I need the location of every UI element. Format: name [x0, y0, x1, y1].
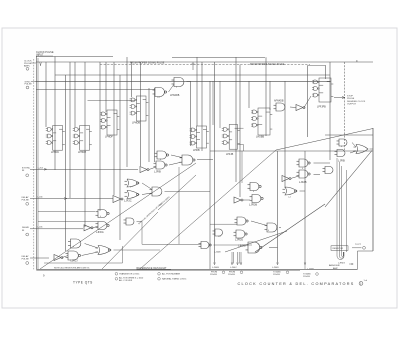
- wire U36 out: [269, 247, 278, 249]
- wire bus x75: [74, 62, 76, 127]
- inverter U29: [54, 255, 63, 261]
- wire border step horizontal: [358, 250, 374, 252]
- svg-text:4: 4: [268, 230, 269, 232]
- gate U27: [66, 251, 81, 260]
- wire top bus B: [55, 74, 330, 76]
- wire U22 out: [165, 191, 211, 193]
- svg-text:FROM PROPER SIGNAL PULSE: FROM PROPER SIGNAL PULSE: [250, 63, 285, 66]
- wire right border: [372, 128, 374, 251]
- wire diagonal G: [158, 175, 196, 210]
- wire wrap bundle bottom right: [337, 158, 347, 260]
- wire feedback bottom: [44, 262, 123, 264]
- gate U10: [297, 170, 311, 178]
- svg-text:LPFJB: LPFJB: [226, 153, 234, 156]
- wire diagonal D: [325, 151, 372, 208]
- gate NOR U28: [96, 246, 112, 255]
- wire left feed y212: [38, 211, 95, 213]
- wire U12 out: [300, 190, 306, 192]
- svg-text:L-204: L-204: [38, 167, 44, 169]
- svg-text:TRANSISTOR LOGIC: TRANSISTOR LOGIC: [119, 273, 140, 276]
- wire diagonal E: [255, 204, 325, 252]
- wire bus x266: [265, 57, 267, 136]
- svg-text:RESISTOR: RESISTOR: [333, 248, 344, 250]
- svg-text:ALL R IN OHMS K = 1000: ALL R IN OHMS K = 1000: [119, 277, 144, 280]
- wire bus x85: [84, 62, 86, 227]
- wire bus x190: [190, 82, 192, 147]
- wire U21-U22: [142, 193, 152, 195]
- gate OR U7: [354, 145, 369, 154]
- wire bus x100: [99, 62, 101, 211]
- wire right upper vertical: [344, 62, 346, 150]
- wire U1 out: [187, 81, 191, 83]
- wire FF-F drop: [243, 145, 245, 152]
- wire delay run 2: [30, 228, 83, 230]
- svg-text:LJFIB: LJFIB: [338, 159, 345, 163]
- gate U6: [335, 150, 346, 157]
- wire U10 out: [314, 174, 321, 176]
- wire bus x249: [248, 81, 250, 108]
- svg-text:4: 4: [100, 216, 101, 218]
- wire bus x270: [269, 81, 271, 110]
- wire bus x325: [325, 66, 327, 80]
- wire bus x70: [69, 62, 71, 198]
- wire bus x285: [284, 82, 286, 189]
- gate U17: [154, 161, 168, 169]
- arrow stub x232: [231, 263, 233, 265]
- resistor RN1 box: [331, 246, 348, 251]
- gate NOR U21: [125, 191, 140, 199]
- inverter U19: [140, 167, 149, 173]
- gate NAND U16: [155, 151, 169, 159]
- wire bus D y89: [36, 89, 155, 91]
- wire U28 out long: [114, 249, 161, 251]
- arrow stub x237.5: [237, 263, 239, 265]
- svg-text:LPFIB: LPFIB: [193, 149, 200, 152]
- svg-text:AMP: AMP: [333, 267, 338, 270]
- svg-text:4: 4: [253, 191, 254, 193]
- wire U11-U10: [291, 176, 300, 179]
- flip-flop LPHDH: [73, 126, 92, 151]
- wire bus x210: [209, 82, 211, 270]
- svg-text:L-204B: L-204B: [214, 252, 221, 254]
- svg-text:LHGBB: LHGBB: [256, 136, 265, 139]
- wire U3-U4: [290, 106, 296, 109]
- wire U18 out: [197, 159, 213, 161]
- svg-text:DELAY: DELAY: [22, 196, 30, 199]
- wire bus x127: [126, 57, 128, 167]
- wire to stop pulse: [334, 97, 345, 99]
- wire diagonal F: [225, 231, 287, 252]
- gate U34: [265, 223, 277, 232]
- wire left feed y222: [38, 221, 98, 223]
- wire feed U33: [210, 223, 237, 225]
- wire stub x232: [231, 252, 233, 264]
- gate U30: [124, 218, 135, 225]
- wire top inner border: [36, 56, 113, 58]
- inverter U4: [296, 105, 305, 111]
- wire bus x214: [214, 62, 216, 264]
- wire diagonal A: [40, 163, 196, 269]
- wire left dashed border: [33, 59, 35, 269]
- wire bus x120: [119, 75, 121, 240]
- gate LPN4DB AND U1: [172, 78, 184, 87]
- svg-text:LPFJPB: LPFJPB: [317, 106, 326, 109]
- gate U22: [150, 187, 162, 196]
- wire U25-U24: [93, 226, 99, 228]
- svg-text:LJFIB: LJFIB: [154, 170, 161, 174]
- wire U30 drop: [141, 222, 143, 245]
- gate U14: [250, 195, 264, 203]
- gate NAND U18: [180, 155, 196, 165]
- wire delay run 3: [30, 257, 49, 259]
- wire bus E y100: [88, 100, 136, 102]
- svg-text:AFN4DB: AFN4DB: [274, 100, 284, 103]
- gate U5: [337, 139, 348, 146]
- wire bus x154: [154, 88, 156, 162]
- svg-text:1204-B: 1204-B: [228, 274, 235, 276]
- wire bus x305: [304, 151, 306, 264]
- wire U7 out: [370, 148, 374, 150]
- svg-text:OUTPUT: OUTPUT: [347, 104, 357, 106]
- wire U30 out: [137, 221, 143, 223]
- wire stub x241: [240, 252, 242, 264]
- wire bus x197: [196, 57, 198, 126]
- svg-text:4: 4: [130, 187, 131, 189]
- arrow B sync: [44, 168, 47, 170]
- svg-text:STOP: STOP: [347, 96, 353, 98]
- wire bus x179: [178, 167, 180, 244]
- flip-flop LPFJB: [222, 125, 240, 150]
- junction dagger 1: [192, 62, 195, 70]
- wire U4 to LPFJPB: [304, 96, 311, 108]
- svg-text:LPHDC: LPHDC: [51, 151, 59, 154]
- svg-text:4: 4: [176, 87, 177, 89]
- svg-text:FROM PROPER SIGNAL PULSE: FROM PROPER SIGNAL PULSE: [130, 62, 165, 65]
- svg-text:LJFDJ: LJFDJ: [71, 260, 79, 263]
- gate U32: [213, 229, 223, 236]
- svg-text:PULSE: PULSE: [347, 98, 355, 100]
- svg-text:TO AND: TO AND: [303, 272, 311, 275]
- svg-text:LJFDD: LJFDD: [235, 238, 243, 242]
- flip-flop LPHDC: [46, 126, 65, 151]
- inverter U15: [234, 197, 243, 203]
- wire U15-U14: [243, 199, 250, 201]
- flip-flop LPHDB: [130, 96, 149, 121]
- inverter U11: [282, 176, 291, 182]
- gate U8: [323, 167, 334, 174]
- wire left border inner: [37, 58, 39, 269]
- gate U9: [297, 159, 311, 167]
- gate U13: [248, 183, 262, 191]
- arrow stop pulse: [342, 97, 345, 99]
- wire U19-U17: [149, 167, 156, 170]
- arrow delay 1: [64, 198, 67, 200]
- wire bus x131: [131, 62, 133, 97]
- wire U17-U18: [169, 162, 182, 165]
- gate U26: [68, 239, 81, 248]
- svg-text:TO AND: TO AND: [273, 271, 281, 274]
- wire vert x220: [219, 82, 221, 129]
- svg-text:AMPL: AMPL: [24, 64, 31, 67]
- wire bottom border second: [36, 269, 300, 271]
- inverter U25: [84, 225, 93, 231]
- svg-text:TYPE QTS: TYPE QTS: [73, 281, 93, 285]
- wire bus x307: [307, 66, 309, 138]
- wire bus x149: [148, 88, 150, 162]
- gate NOR U20: [125, 179, 140, 187]
- wire bus x240: [239, 65, 241, 198]
- wire to PT: [352, 247, 362, 249]
- arrow stub x305: [304, 263, 306, 265]
- wire U2-U1: [169, 84, 175, 92]
- svg-text:TO PT: TO PT: [355, 244, 362, 246]
- wire top inner border segment 2: [172, 56, 265, 58]
- arrow stub x241: [240, 263, 242, 265]
- svg-text:LJFDG: LJFDG: [96, 231, 104, 234]
- wire bus x140: [140, 62, 142, 166]
- wire left border outer: [35, 56, 37, 269]
- flip-flop LPFJPB: [312, 78, 333, 102]
- svg-text:LJFDB: LJFDB: [249, 203, 257, 207]
- gate NAND U2: [153, 88, 167, 97]
- wire diagonal B: [102, 212, 158, 269]
- wire right shelf horizontal: [325, 134, 373, 136]
- wire bus x106: [105, 62, 107, 112]
- wire bus x65: [65, 75, 67, 251]
- wire vert x213: [212, 82, 214, 126]
- wire bottom border: [36, 268, 357, 270]
- wire U31 out: [214, 244, 253, 246]
- wire FF-F out b: [238, 144, 244, 146]
- wire delay run 1: [30, 198, 113, 200]
- svg-text:1 of: 1 of: [364, 280, 368, 282]
- svg-text:PULSE: PULSE: [22, 258, 30, 260]
- svg-text:NOTE: ALL RESISTORS ARE 1/4W 5: NOTE: ALL RESISTORS ARE 1/4W 5%: [54, 267, 90, 270]
- svg-text:LPHDB: LPHDB: [132, 122, 140, 125]
- svg-text:ARN4 BUF: ARN4 BUF: [329, 264, 340, 267]
- gate AFN4DB AND U3: [274, 103, 285, 111]
- wire bus x55: [54, 57, 56, 171]
- gate NOR U12: [283, 187, 298, 195]
- svg-text:LJF2B: LJF2B: [299, 180, 307, 184]
- svg-text:LPHDF: LPHDF: [105, 136, 113, 139]
- wire U20-U22: [142, 183, 152, 190]
- wire U33-U34: [251, 221, 267, 226]
- wire bus x114: [113, 62, 115, 195]
- svg-text:4: 4: [302, 168, 303, 170]
- wire U5-U7: [352, 143, 356, 148]
- wire U6-U7: [350, 151, 356, 153]
- svg-text:LPHDH: LPHDH: [78, 151, 86, 154]
- wire border step vertical: [357, 251, 359, 269]
- flip-flop LHGBB: [251, 108, 272, 135]
- svg-text:LJH4G: LJH4G: [338, 262, 345, 264]
- svg-text:1204-B: 1204-B: [210, 274, 217, 276]
- wire feedback vertical: [122, 246, 124, 263]
- inverter U40 delay line: [113, 196, 123, 203]
- wire FF-F out a: [238, 127, 244, 129]
- arrow stub x277.5: [277, 263, 279, 265]
- arrow stub x214.5: [214, 263, 216, 265]
- wire diagonal C: [140, 129, 373, 270]
- wire bus x277: [277, 151, 279, 264]
- svg-text:L-204C: L-204C: [230, 267, 237, 269]
- node to 1204-B no.4: [304, 264, 306, 270]
- svg-text:PULSE: PULSE: [25, 84, 33, 86]
- svg-text:1204-B: 1204-B: [303, 276, 310, 278]
- wire U9 out: [314, 162, 331, 164]
- svg-text:L-204D: L-204D: [272, 267, 279, 269]
- wire B sync run: [30, 168, 138, 170]
- wire stub x237.5: [237, 252, 239, 264]
- svg-text:4: 4: [160, 159, 161, 161]
- gate U31: [199, 242, 212, 249]
- wire stub x239.2: [238, 252, 240, 264]
- wire x242 drop: [241, 151, 243, 183]
- wire bus x46: [45, 62, 47, 127]
- svg-text:1204-B: 1204-B: [273, 274, 280, 276]
- svg-text:NATURAL TIMING LOGIC: NATURAL TIMING LOGIC: [162, 278, 187, 281]
- flip-flop LPFIB: [190, 126, 209, 148]
- wire U26-U28: [85, 244, 99, 249]
- wire U27-U28: [82, 252, 99, 256]
- svg-text:L-4: L-4: [157, 97, 160, 99]
- svg-text:L-205: L-205: [37, 227, 43, 229]
- svg-text:DELAY: DELAY: [22, 226, 30, 229]
- svg-text:REFERENCE DESIGNAT: REFERENCE DESIGNAT: [137, 267, 168, 270]
- wire top bus C: [36, 80, 331, 82]
- gate U24: [96, 222, 110, 230]
- gate U33: [235, 217, 249, 225]
- wire bus x330: [329, 62, 331, 160]
- wire top bus A: [36, 61, 373, 63]
- gate U35: [234, 230, 248, 238]
- svg-text:LPN4DB: LPN4DB: [170, 94, 180, 97]
- wire mid horizontal net: [210, 150, 373, 152]
- wire corner to FF-H: [308, 65, 326, 67]
- gate U23: [96, 210, 110, 218]
- svg-text:L-4: L-4: [288, 197, 291, 199]
- svg-text:L-204B: L-204B: [212, 267, 219, 269]
- gate U36: [246, 242, 263, 253]
- flip-flop LPHDF: [100, 110, 119, 135]
- wire dashed signal bus: [100, 64, 310, 66]
- svg-text:L-204E: L-204E: [307, 268, 314, 270]
- svg-text:PULSE: PULSE: [22, 199, 30, 201]
- svg-text:DELAY: DELAY: [22, 255, 30, 258]
- svg-text:CLOCK COUNTER & DEL. COMPA: CLOCK COUNTER & DEL. COMPARATORS: [238, 282, 355, 286]
- svg-text:L-204: L-204: [37, 196, 43, 198]
- wire amp arrow: [349, 263, 353, 265]
- arrow amp: [352, 263, 354, 265]
- wire to U31: [142, 243, 201, 245]
- wire stub x233.7: [233, 252, 235, 264]
- arrow down clock: [40, 62, 42, 66]
- svg-text:L-4: L-4: [218, 236, 221, 238]
- wire U34 out: [279, 227, 281, 229]
- wire U29-U27: [62, 256, 68, 258]
- svg-text:ALL FOR NUMBER: ALL FOR NUMBER: [162, 273, 181, 276]
- svg-text:4: 4: [341, 146, 342, 148]
- svg-text:DELAYED CLOCK: DELAYED CLOCK: [347, 100, 366, 103]
- wire bus x236: [235, 57, 237, 182]
- wire U16-U18: [171, 155, 182, 158]
- svg-text:ALL C IN UUF: ALL C IN UUF: [119, 279, 133, 282]
- wire bus x202: [201, 62, 203, 151]
- svg-text:LJF2C: LJF2C: [124, 199, 132, 203]
